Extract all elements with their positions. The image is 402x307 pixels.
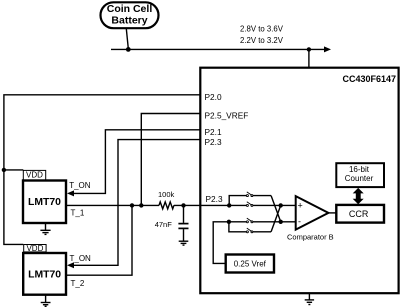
svg-text:P2.3: P2.3: [205, 137, 222, 147]
svg-text:CCR: CCR: [349, 209, 369, 219]
svg-text:P2.3: P2.3: [206, 194, 223, 204]
svg-text:Counter: Counter: [345, 174, 374, 183]
svg-text:P2.0: P2.0: [205, 92, 222, 102]
svg-text:VDD: VDD: [26, 244, 43, 253]
svg-text:T_2: T_2: [71, 279, 85, 288]
svg-text:T_ON: T_ON: [70, 254, 92, 263]
svg-text:100k: 100k: [158, 190, 175, 199]
svg-text:LMT70: LMT70: [28, 197, 61, 208]
svg-text:VDD: VDD: [26, 171, 43, 180]
svg-text:2.2V to 3.2V: 2.2V to 3.2V: [240, 36, 284, 45]
svg-text:0.25 Vref: 0.25 Vref: [234, 259, 267, 268]
svg-text:P2.5_VREF: P2.5_VREF: [205, 111, 249, 121]
svg-text:T_1: T_1: [71, 209, 85, 218]
svg-text:CC430F6147: CC430F6147: [342, 74, 396, 84]
svg-text:Coin Cell: Coin Cell: [107, 3, 153, 15]
svg-text:P2.1: P2.1: [205, 127, 222, 137]
svg-text:16-bit: 16-bit: [349, 165, 370, 174]
svg-text:47nF: 47nF: [155, 220, 173, 229]
svg-text:LMT70: LMT70: [28, 270, 61, 281]
svg-text:T_ON: T_ON: [69, 181, 91, 190]
svg-text:-: -: [298, 217, 301, 227]
svg-text:+: +: [298, 200, 303, 210]
svg-text:2.8V to 3.6V: 2.8V to 3.6V: [240, 25, 284, 34]
svg-text:Comparator B: Comparator B: [287, 232, 334, 241]
svg-text:Battery: Battery: [111, 15, 147, 27]
